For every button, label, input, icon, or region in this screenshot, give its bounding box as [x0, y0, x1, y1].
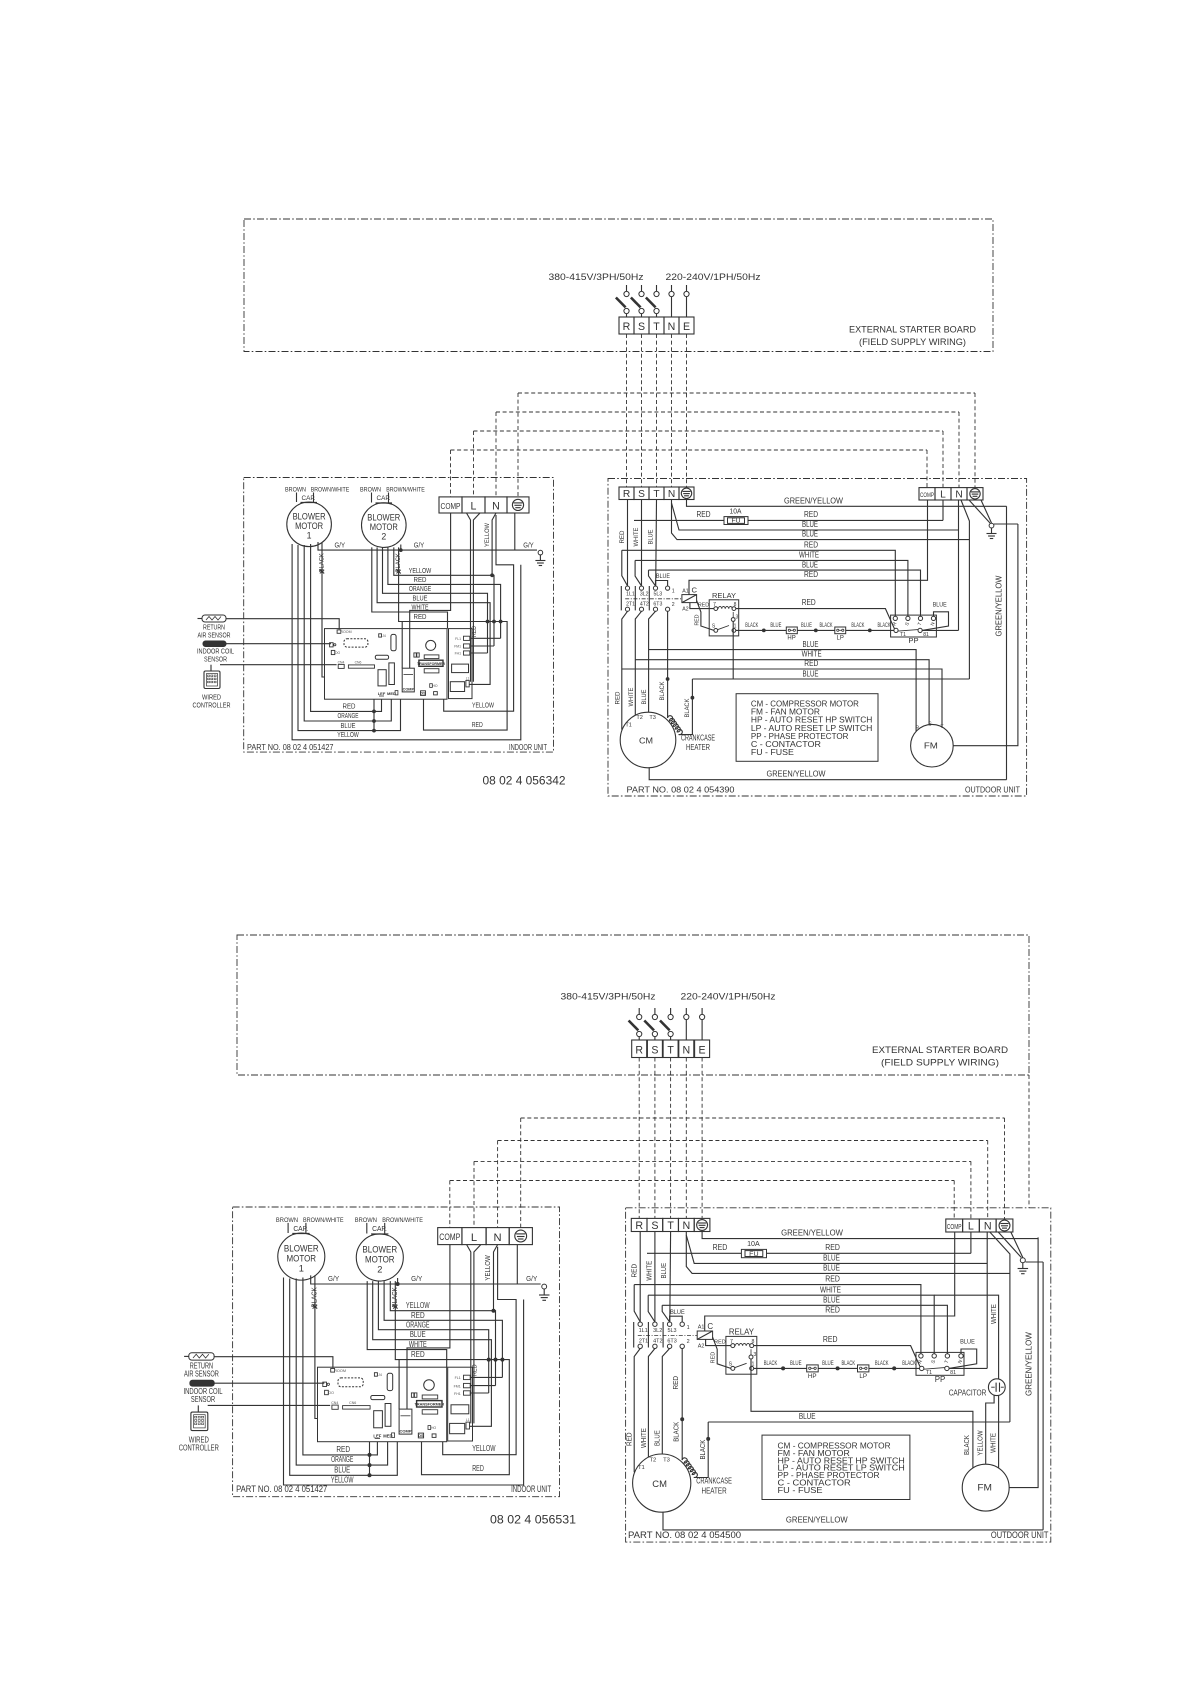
label part number outdoor	[627, 785, 735, 795]
outdoor terminal COMP label	[947, 1224, 962, 1231]
label A2	[682, 606, 688, 612]
contactor pole 1L1/2T1	[625, 586, 629, 611]
return air sensor	[198, 615, 227, 622]
svg-text:T: T	[667, 1220, 674, 1232]
wire phase S drop	[641, 500, 643, 586]
field wire stray vertical	[1028, 1075, 1030, 1208]
label 3L2	[653, 1328, 662, 1334]
terminal T label	[667, 1045, 674, 1057]
svg-text:MED: MED	[383, 1434, 392, 1439]
svg-text:ORANGE: ORANGE	[338, 711, 359, 720]
field interconnect wire run 3	[474, 430, 944, 432]
label OUTDOOR UNIT	[965, 785, 1020, 795]
breaker switch pole T	[646, 285, 659, 317]
pp terminal T1	[920, 1366, 933, 1376]
svg-text:RED: RED	[697, 510, 711, 519]
svg-text:7: 7	[730, 1339, 733, 1345]
label RED aux	[672, 1376, 680, 1390]
wire heater to blue	[679, 679, 693, 735]
indoor unit box	[233, 1207, 560, 1497]
pcb relay 2	[389, 663, 395, 685]
svg-text:TRANSFORMER: TRANSFORMER	[417, 662, 445, 666]
svg-text:WHITE: WHITE	[990, 1304, 998, 1324]
svg-text:RED: RED	[695, 615, 701, 626]
wire BM1 black	[315, 1275, 318, 1418]
label RED bottom	[336, 1445, 350, 1454]
label WHITE 1	[799, 551, 819, 560]
svg-text:RED: RED	[472, 625, 478, 637]
wire RED	[384, 1281, 502, 1377]
pcb connector aux	[432, 1434, 436, 1438]
legend row FU	[751, 748, 794, 757]
svg-text:BLUE: BLUE	[802, 560, 818, 569]
contactor pole bars	[634, 1322, 663, 1348]
label BLUE c2	[822, 1360, 834, 1367]
legend row FM	[778, 1449, 850, 1458]
svg-text:WHITE: WHITE	[990, 1433, 998, 1453]
wire RED right	[424, 622, 508, 731]
terminal S label	[638, 321, 645, 333]
label HP	[808, 1373, 817, 1380]
wire blue pp corner	[649, 570, 656, 586]
legend box	[762, 1435, 910, 1499]
outdoor terminal block COMP L N E	[946, 1219, 1013, 1232]
svg-text:RED: RED	[711, 1352, 717, 1364]
outdoor earth terminal 1	[681, 488, 691, 498]
svg-text:WHITE: WHITE	[409, 1340, 427, 1349]
label WHITE capacitor	[990, 1304, 998, 1324]
svg-text:220-240V/1PH/50Hz: 220-240V/1PH/50Hz	[681, 992, 776, 1003]
svg-text:BLUE: BLUE	[790, 1360, 802, 1367]
wire sub board FM1	[470, 1385, 495, 1387]
wire red fuse run	[634, 500, 943, 520]
wire YELLOW right	[444, 515, 514, 711]
label S fan	[928, 722, 932, 728]
svg-text:CN6: CN6	[349, 1401, 356, 1405]
field interconnect wire run 4	[451, 449, 928, 451]
svg-text:ROOM: ROOM	[340, 630, 351, 634]
svg-text:4T2: 4T2	[640, 601, 649, 607]
legend row C	[778, 1479, 851, 1488]
svg-text:BLACK: BLACK	[963, 1435, 971, 1455]
label BLACK heater	[699, 1439, 707, 1459]
legend row HP	[778, 1456, 905, 1465]
svg-text:CONTROLLER: CONTROLLER	[193, 700, 231, 709]
label WIRED CONTROLLER	[179, 1436, 219, 1453]
field interconnect wire run 4	[450, 1180, 954, 1182]
hp switch HP	[786, 627, 797, 634]
pcb connector LEF	[373, 1434, 381, 1439]
legend row CM	[751, 700, 859, 709]
label 2T1	[626, 601, 635, 607]
svg-text:RED: RED	[472, 1464, 484, 1473]
wire COMP terminal to pcb	[410, 513, 451, 668]
svg-text:BLOWER: BLOWER	[284, 1244, 319, 1254]
label BLUE pp	[933, 602, 947, 609]
wire coil to relay S	[713, 1337, 731, 1368]
compressor motor CM	[633, 1454, 691, 1512]
svg-text:BLACK: BLACK	[745, 623, 758, 629]
svg-text:GREEN/YELLOW: GREEN/YELLOW	[767, 770, 827, 779]
contactor linkage	[625, 598, 682, 600]
svg-text:BROWN/WHITE: BROWN/WHITE	[311, 487, 350, 494]
breaker switch pole S	[644, 1008, 657, 1040]
outdoor earth terminal 2	[999, 1220, 1010, 1231]
wire protection chain	[736, 629, 894, 631]
svg-text:R: R	[635, 1220, 643, 1232]
pcb connector MED	[387, 691, 398, 696]
label GREEN/YELLOW vertical	[995, 575, 1004, 637]
indoor terminal block COMP L N E	[439, 497, 529, 513]
svg-text:BLUE: BLUE	[803, 669, 819, 678]
pcb connector HB	[414, 653, 419, 657]
breaker switch pole R	[616, 285, 629, 317]
svg-text:GREEN/YELLOW: GREEN/YELLOW	[786, 1516, 848, 1525]
svg-text:J4: J4	[382, 634, 386, 638]
pcb connector D	[323, 1382, 330, 1386]
field wire drop to outdoor terminal 4	[953, 1181, 955, 1220]
contactor pole 3L2/4T2	[639, 586, 643, 611]
wire white pp corner	[635, 560, 641, 586]
wire ORANGE	[383, 547, 488, 653]
tick mark BM2 black wire	[396, 570, 400, 574]
sub board relay 1	[451, 1405, 469, 1414]
svg-text:3L2: 3L2	[653, 1328, 662, 1334]
wire BM1 blue	[290, 1279, 398, 1476]
outdoor terminal COMP label	[920, 492, 934, 499]
junction dot orange-red2	[487, 1358, 491, 1362]
svg-text:BLACK: BLACK	[659, 681, 666, 700]
svg-text:BLUE: BLUE	[799, 1412, 816, 1421]
pcb connector D	[330, 643, 336, 647]
wire protection chain	[754, 1367, 920, 1369]
wire coil A2 to relay 7	[706, 1339, 731, 1345]
svg-text:T3: T3	[649, 715, 656, 721]
label EXTERNAL STARTER BOARD	[872, 1045, 1008, 1055]
label BLUE jumper	[670, 1309, 685, 1316]
svg-text:FU - FUSE: FU - FUSE	[751, 748, 794, 757]
wire phase R drop	[627, 500, 629, 586]
sub board connector FL1	[455, 1375, 471, 1380]
pcb connector CN4	[338, 660, 345, 668]
svg-text:WHITE: WHITE	[820, 1285, 841, 1294]
pcb connector J4	[379, 634, 386, 638]
wire BM1 yellow	[292, 544, 521, 740]
wire red to pp	[634, 1285, 921, 1354]
contactor pole bars	[621, 586, 649, 610]
svg-text:YELLOW: YELLOW	[472, 701, 495, 710]
svg-text:RED: RED	[802, 598, 816, 607]
label BROWN/WHITE (BM2 cap)	[386, 487, 425, 494]
label YELLOW right	[472, 701, 495, 710]
wire BM1 red	[303, 1278, 378, 1455]
wire L terminal pair a	[467, 513, 471, 682]
field interconnect wire run 2	[498, 1140, 988, 1142]
field supply wire N	[671, 334, 673, 487]
label HP	[787, 636, 795, 642]
svg-text:3L2: 3L2	[640, 591, 649, 597]
label RELAY	[729, 1328, 755, 1337]
svg-text:8: 8	[751, 1339, 754, 1345]
outdoor terminal N label	[984, 1221, 992, 1233]
svg-text:ROOM: ROOM	[334, 1369, 346, 1373]
crankcase heater coil	[668, 716, 683, 735]
svg-text:T1: T1	[926, 1370, 932, 1376]
svg-text:1: 1	[672, 589, 675, 595]
wire blue 1	[672, 500, 959, 531]
svg-text:5L3: 5L3	[667, 1328, 676, 1334]
svg-text:BLUE: BLUE	[770, 623, 781, 629]
label BLACK c2	[820, 623, 833, 629]
label YELLOW wire	[409, 566, 432, 575]
label GREEN/YELLOW bottom	[767, 770, 827, 779]
label YELLOW (L wire)	[484, 523, 491, 547]
wire blue 2	[672, 503, 970, 540]
relay contact S-1	[729, 1362, 755, 1371]
label BLACK c3	[875, 1360, 889, 1367]
pcb transformer	[417, 640, 445, 673]
svg-text:BLUE: BLUE	[823, 1253, 840, 1262]
wire YELLOW	[390, 1281, 495, 1386]
wire coil to relay S	[697, 601, 714, 631]
field supply wire R	[626, 334, 628, 487]
terminal R label	[623, 321, 631, 333]
wire RED 2	[395, 1281, 502, 1360]
blower motor 2	[362, 503, 407, 548]
wire N branch to fan circuit	[990, 1232, 1010, 1422]
outdoor earth terminal 1	[697, 1220, 708, 1231]
label WHITE fan	[990, 1433, 998, 1453]
svg-text:08 02 4 056342: 08 02 4 056342	[483, 774, 566, 788]
svg-text:(FIELD SUPPLY WIRING): (FIELD SUPPLY WIRING)	[859, 337, 966, 347]
pcb connector aux	[434, 692, 438, 695]
wire blue 2	[686, 1235, 1010, 1273]
wire 4T2 to CM T2	[635, 611, 641, 715]
label T3 cm	[649, 715, 656, 721]
wire RED 2 drop to comp relay	[401, 622, 403, 669]
phase protector PP box	[916, 1352, 964, 1375]
wire return air sensor	[226, 619, 339, 630]
svg-text:2: 2	[381, 531, 386, 541]
label RED 4	[804, 570, 818, 579]
pcb connector CN6	[343, 1401, 371, 1409]
wire blue to pp	[662, 1305, 947, 1354]
svg-text:BLUE: BLUE	[670, 1309, 685, 1316]
wire BM2 G/Y drop	[400, 545, 402, 551]
indoor coil sensor	[190, 1380, 214, 1386]
contactor pole 5L3/6T3	[667, 1322, 671, 1349]
field interconnect wire run 1	[518, 392, 975, 394]
pcb connector ROOM	[331, 1369, 346, 1374]
svg-text:BLACK: BLACK	[699, 1439, 707, 1459]
label 4T2	[653, 1338, 662, 1344]
svg-text:FL1: FL1	[455, 637, 461, 641]
label A2	[698, 1343, 705, 1349]
svg-text:YELLOW: YELLOW	[484, 1255, 492, 1281]
label G/Y 2	[411, 1274, 422, 1283]
label R fan	[915, 726, 919, 732]
wire relay 3 drop	[732, 622, 734, 680]
legend box	[736, 694, 878, 762]
svg-text:BLUE: BLUE	[803, 640, 819, 649]
svg-text:BLUE: BLUE	[656, 573, 670, 580]
legend row FM	[751, 708, 820, 717]
relay contact S-1	[712, 624, 737, 633]
wire capacitor to fan white	[998, 1396, 1000, 1468]
junction dot yellow-red2	[492, 620, 496, 624]
svg-text:FU: FU	[749, 1251, 759, 1258]
label YELLOW bottom	[331, 1475, 354, 1484]
svg-text:R: R	[623, 489, 630, 500]
junction dot c3	[868, 629, 872, 633]
relay terminal 3	[731, 612, 738, 621]
wire WHITE	[372, 547, 448, 628]
svg-text:T: T	[653, 321, 660, 333]
svg-text:COMP: COMP	[400, 1429, 412, 1434]
label RED out	[614, 691, 621, 704]
label BLUE wire	[410, 1330, 426, 1339]
label 220-240V/1PH/50Hz	[666, 272, 761, 283]
wire red pp corner	[634, 1285, 640, 1322]
contactor coil C	[682, 595, 697, 603]
svg-text:FL1: FL1	[455, 1376, 461, 1380]
svg-text:RED: RED	[619, 530, 626, 543]
svg-text:BLUE: BLUE	[660, 1263, 668, 1279]
svg-text:BLACK: BLACK	[851, 623, 864, 629]
pcb connector DS	[420, 691, 426, 696]
pp terminal S1	[945, 1366, 956, 1376]
label WHITE phase	[633, 527, 640, 546]
wire BM2 G/Y drop	[397, 1278, 399, 1284]
field supply wire R	[638, 1058, 640, 1219]
label YELLOW (L wire)	[484, 1255, 492, 1281]
svg-text:BLUE: BLUE	[334, 1465, 350, 1474]
svg-text:81: 81	[950, 1370, 956, 1376]
svg-text:PP: PP	[908, 636, 918, 645]
label EXTERNAL STARTER BOARD	[849, 325, 976, 335]
svg-text:CAPACITOR: CAPACITOR	[949, 1389, 987, 1398]
label ORANGE bottom	[331, 1455, 353, 1464]
label T fan	[940, 724, 944, 730]
svg-text:BLOWER: BLOWER	[362, 1244, 397, 1254]
label RED fuse left	[697, 510, 711, 519]
svg-text:RELAY: RELAY	[712, 591, 736, 600]
svg-text:GREEN/YELLOW: GREEN/YELLOW	[1025, 1332, 1034, 1396]
svg-text:EXTERNAL STARTER BOARD: EXTERNAL STARTER BOARD	[849, 325, 976, 335]
svg-text:TRANSFORMER: TRANSFORMER	[415, 1403, 445, 1407]
junction dot red-red2	[499, 620, 503, 624]
contactor linkage	[638, 1334, 697, 1336]
label 2T1	[639, 1338, 648, 1344]
field wire drop to outdoor terminal 2	[987, 1141, 989, 1220]
label WHITE out	[640, 1428, 648, 1448]
label RED 4	[825, 1306, 840, 1315]
wire white to capacitor	[934, 1295, 998, 1378]
label OUTDOOR UNIT	[991, 1530, 1049, 1540]
compressor motor CM	[620, 712, 676, 768]
label BLACK c1	[745, 623, 758, 629]
pcb connector MED	[383, 1433, 394, 1439]
svg-text:BLUE: BLUE	[823, 1263, 840, 1272]
svg-text:380-415V/3PH/50Hz: 380-415V/3PH/50Hz	[561, 992, 656, 1003]
svg-text:G/Y: G/Y	[328, 1274, 339, 1283]
svg-text:HO: HO	[431, 1426, 437, 1430]
svg-text:RED: RED	[411, 1350, 425, 1359]
label BLUE c1	[790, 1360, 802, 1367]
svg-text:10A: 10A	[747, 1239, 760, 1248]
svg-text:RED: RED	[713, 1243, 728, 1252]
label WHITE out	[628, 687, 635, 706]
label RED wire 2	[411, 1350, 425, 1359]
wire WHITE	[367, 1281, 447, 1367]
label 220-240V/1PH/50Hz	[681, 992, 776, 1003]
wire earth V right	[1011, 1232, 1023, 1258]
svg-text:L: L	[940, 490, 946, 501]
outdoor terminal R label	[623, 489, 630, 500]
wire 4T2 to CM T2	[648, 1349, 655, 1458]
svg-text:AIR SENSOR: AIR SENSOR	[198, 631, 231, 640]
terminal N label	[494, 1232, 502, 1244]
svg-text:RED: RED	[823, 1335, 838, 1344]
label BROWN/WHITE (BM1 cap)	[311, 487, 350, 494]
pcb connector DS	[418, 1433, 424, 1438]
label ORANGE bottom	[338, 711, 359, 720]
svg-text:FM: FM	[924, 741, 938, 751]
wire blue jumper 5L3-aux	[656, 581, 668, 586]
junction dot c1	[781, 1366, 785, 1370]
svg-text:BLUE: BLUE	[410, 1330, 426, 1339]
svg-text:RED: RED	[672, 1376, 680, 1390]
wire sub board FH1	[470, 1392, 489, 1394]
svg-text:1: 1	[734, 624, 737, 630]
svg-text:LEF: LEF	[378, 691, 386, 696]
svg-text:SENSOR: SENSOR	[204, 654, 227, 663]
svg-text:RED: RED	[631, 1264, 639, 1278]
label BLACK heater	[684, 698, 691, 717]
junction dot yellow-red2	[494, 1358, 498, 1362]
indoor coil sensor	[203, 641, 226, 647]
label BLUE bottom	[341, 721, 356, 730]
svg-text:N: N	[682, 1045, 690, 1057]
svg-text:BLUE: BLUE	[802, 530, 818, 539]
label G/Y 1	[328, 1274, 339, 1283]
label RELAY	[712, 591, 736, 600]
svg-text:BLUE: BLUE	[801, 623, 812, 629]
svg-text:MOTOR: MOTOR	[295, 521, 323, 531]
svg-text:YELLOW: YELLOW	[484, 523, 491, 547]
label PP	[935, 1375, 946, 1384]
terminal N label	[492, 500, 500, 512]
sub board connector L1	[466, 1418, 470, 1429]
svg-text:COMP: COMP	[920, 492, 934, 499]
label RED relay	[714, 1339, 726, 1345]
outdoor ground symbol	[1018, 1263, 1029, 1274]
label RED bottom	[343, 702, 356, 711]
svg-text:T: T	[667, 1045, 674, 1057]
svg-text:BROWN: BROWN	[360, 487, 381, 494]
svg-text:J4: J4	[378, 1373, 382, 1377]
field interconnect wire run 1	[521, 1117, 1005, 1119]
sub board relay 2	[450, 682, 464, 692]
wire white to pp	[648, 1295, 934, 1354]
svg-text:BLACK: BLACK	[764, 1360, 778, 1367]
label G/Y 2	[414, 542, 425, 549]
sub board connector FM1	[454, 644, 470, 649]
legend row FU	[778, 1486, 824, 1495]
svg-text:T1: T1	[638, 1465, 645, 1471]
junction dot c2	[836, 1366, 840, 1370]
label part number indoor	[247, 742, 334, 752]
